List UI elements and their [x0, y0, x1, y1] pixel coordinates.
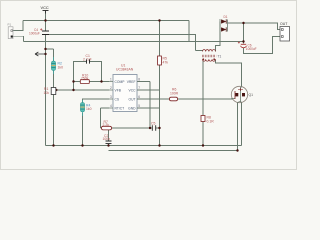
svg-text:CS: CS [115, 98, 120, 102]
svg-text:2.2uF: 2.2uF [83, 57, 92, 61]
svg-text:RT/CT: RT/CT [115, 107, 125, 111]
svg-text:GND: GND [128, 107, 136, 111]
wire R2 column [53, 49, 55, 61]
svg-text:2: 2 [110, 86, 112, 90]
resistor R6 [170, 88, 179, 101]
svg-text:3: 3 [110, 95, 112, 99]
wire Q1 second column [237, 102, 239, 151]
wire CS row [83, 99, 110, 103]
resistor R8 [201, 116, 214, 124]
svg-text:1000uF: 1000uF [246, 47, 257, 51]
transformer T1 [202, 50, 216, 62]
node Q1 return on bus2 [236, 149, 238, 151]
svg-text:Q1: Q1 [249, 93, 254, 97]
svg-text:OUT: OUT [129, 98, 136, 102]
svg-text:4: 4 [110, 104, 112, 108]
wire VREF jog [137, 81, 150, 83]
diode D1 (pair) [220, 15, 228, 45]
svg-text:6: 6 [138, 95, 140, 99]
wire primary top lead [196, 50, 203, 52]
resistor R7 [102, 120, 112, 130]
wire left main column upper [45, 21, 47, 32]
svg-text:7: 7 [138, 86, 140, 90]
node COMP network left top [72, 80, 74, 82]
svg-text:VREF: VREF [127, 80, 136, 84]
wire R7 row [101, 127, 102, 129]
wire R4 bottom [82, 113, 84, 146]
node C1 to COMP rail [100, 80, 102, 82]
wire R8 column [202, 60, 204, 116]
wire P1 pin2 riser to line C [13, 36, 24, 41]
svg-text:COMP: COMP [115, 80, 126, 84]
wire top bus line A [23, 20, 189, 22]
wire VFB row [56, 89, 109, 91]
svg-text:C5: C5 [151, 122, 155, 126]
svg-text:8: 8 [138, 78, 140, 82]
node R1 column on ground bus [52, 144, 54, 146]
op-amp U1 (PWM controller UC3843AN) [109, 64, 141, 112]
wire COMP row [74, 81, 81, 83]
svg-text:1: 1 [110, 78, 112, 82]
resistor R1 [44, 87, 57, 95]
svg-text:100R: 100R [170, 91, 179, 95]
wire C1R10 left riser [73, 82, 75, 91]
node R1 wiper tap [55, 89, 57, 91]
wire P1 pin1 to bus A [13, 21, 23, 31]
wire RT/CT row [101, 107, 110, 109]
wire VCC pin7 row [137, 89, 160, 91]
capacitor C4 [29, 28, 49, 36]
svg-text:47k: 47k [163, 61, 169, 65]
wire R5 column [159, 21, 161, 57]
svg-text:OUT: OUT [280, 22, 288, 26]
node R4 column on ground bus [81, 144, 83, 146]
wire bottom bus2 [109, 150, 238, 152]
svg-text:1000uF: 1000uF [29, 32, 40, 36]
resistor R10 [80, 74, 89, 84]
svg-text:1k0: 1k0 [86, 107, 92, 111]
node C5 right to GND column [158, 127, 160, 129]
node R8 column on ground bus [202, 144, 204, 146]
capacitor C6 [238, 42, 257, 52]
svg-text:D1: D1 [224, 15, 228, 19]
resistor R4 (photo style) [80, 100, 91, 116]
wire bottom winding right to drain [216, 60, 242, 87]
node probe arrow junction [44, 53, 46, 55]
capacitor C5 [151, 122, 156, 131]
wire VCC stem [45, 14, 47, 21]
svg-text:T1: T1 [218, 55, 222, 59]
svg-text:VFB: VFB [115, 89, 122, 93]
wire C1 loop [74, 62, 87, 82]
node output plus at C6 [242, 22, 244, 24]
wire left main column lower [45, 35, 47, 146]
wire GND pin5 [137, 107, 160, 109]
wire bus A drop to line C [188, 21, 190, 42]
svg-text:P1: P1 [8, 23, 12, 27]
VCC power symbol [41, 5, 49, 14]
node startup column on top bus [158, 19, 160, 21]
probe arrow [35, 52, 46, 56]
wire bottom bus1 [46, 145, 242, 147]
node line C at C6 [242, 40, 244, 42]
svg-text:VCC: VCC [129, 89, 137, 93]
connector P1 [8, 23, 14, 39]
svg-text:1k0: 1k0 [58, 66, 64, 70]
node C2 column on ground bus [107, 144, 109, 146]
svg-text:UC3843AN: UC3843AN [116, 68, 134, 72]
wire line C [24, 41, 244, 43]
connector OUT [280, 22, 290, 41]
node divider top tap [44, 48, 46, 50]
resistor R2 (photo style) [51, 57, 63, 74]
node VREF column to timing rail [149, 127, 151, 129]
capacitor C2 [103, 134, 112, 144]
wire secondary right riser [216, 22, 221, 52]
svg-text:VCC: VCC [41, 5, 49, 10]
wire col150 down [149, 82, 151, 129]
node VCC bus tap [44, 19, 46, 21]
resistor R5 [158, 56, 169, 65]
node VFB rail left [72, 89, 74, 91]
wire OUT pin6 / gate [137, 98, 170, 100]
wire arrow tap [46, 48, 54, 50]
svg-text:0.1R: 0.1R [207, 120, 215, 124]
wire C2 column [108, 128, 110, 141]
wire Q1 source column [241, 102, 243, 145]
svg-text:10k: 10k [44, 91, 50, 95]
wire line B [46, 35, 196, 51]
transistor Q1 (MOSFET) [231, 86, 253, 102]
capacitor C1 [83, 54, 92, 63]
wire C6 column [243, 23, 245, 44]
wire output plus row [228, 23, 281, 30]
svg-text:5: 5 [138, 104, 140, 108]
node GND column on ground bus [158, 144, 160, 146]
